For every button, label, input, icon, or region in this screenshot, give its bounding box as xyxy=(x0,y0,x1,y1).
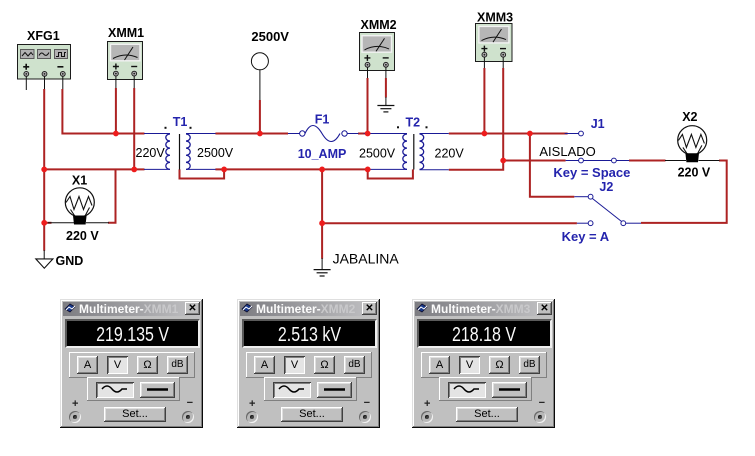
ground JABALINA stem xyxy=(321,258,323,270)
ground stem XMM2 xyxy=(385,97,387,105)
svg-text:220V: 220V xyxy=(435,147,465,161)
wire probe to bus xyxy=(259,100,261,134)
switch J2 xyxy=(574,194,641,225)
svg-text:Key = A: Key = A xyxy=(562,229,610,244)
multimeter icon XMM3 body xyxy=(476,24,513,62)
wire J1 pole to lamp X2 xyxy=(629,160,666,162)
XMM3 terminal + xyxy=(482,52,487,57)
XMM3 pin stub + xyxy=(483,57,485,68)
XMM3 pin stub - xyxy=(502,57,504,68)
svg-text:J1: J1 xyxy=(591,117,605,131)
svg-text:220V: 220V xyxy=(136,146,166,160)
junction secondary bottom node xyxy=(500,158,506,164)
ground symbol JABALINA xyxy=(314,270,331,276)
wire to J1 lower contact xyxy=(503,160,565,162)
wire bottom rail to J2 open contact xyxy=(322,222,577,224)
svg-text:F1: F1 xyxy=(315,112,330,126)
wire T2 center tap U xyxy=(368,169,413,178)
junction XMM3+ node xyxy=(482,131,488,137)
XMM2 pin stub + xyxy=(367,67,369,78)
XFG1 pin stub common xyxy=(44,76,46,89)
svg-text:2500V: 2500V xyxy=(359,147,396,161)
fuse F1 xyxy=(288,126,359,142)
junction T2 tap node xyxy=(365,167,371,173)
wire bottom bus left xyxy=(44,168,144,170)
multimeter window XMM1 xyxy=(60,299,203,428)
XFG1 terminal minus xyxy=(60,72,65,77)
ground symbol XMM2 xyxy=(377,106,394,112)
XMM2 pin stub - xyxy=(385,67,387,78)
lamp X2 xyxy=(665,126,720,163)
svg-text:Key = Space: Key = Space xyxy=(553,165,630,180)
XMM1 terminal - xyxy=(132,71,137,76)
XMM1 pin stub + xyxy=(115,76,117,88)
XFG1 pin stub minus xyxy=(62,76,64,89)
junction JABALINA node xyxy=(319,167,325,173)
XFG1 pin stub + xyxy=(25,76,27,90)
svg-text:XMM2: XMM2 xyxy=(361,18,397,32)
lamp X1 xyxy=(48,188,109,225)
probe stem wire xyxy=(259,70,261,101)
wire XMM3 + down xyxy=(483,68,485,134)
junction J2 feed node xyxy=(527,131,533,137)
svg-text:X1: X1 xyxy=(72,173,87,187)
wire XMM2 - down xyxy=(385,78,387,98)
wire XFG1 minus down and right to T1 xyxy=(62,89,144,134)
svg-text:J2: J2 xyxy=(599,180,613,194)
switch J1 xyxy=(565,131,630,163)
XMM3 terminal - xyxy=(501,52,506,57)
wire T1 center tap U xyxy=(180,169,225,178)
transformer T1 xyxy=(144,127,216,170)
junction bottom rail node xyxy=(319,220,325,226)
svg-text:10_AMP: 10_AMP xyxy=(298,147,347,161)
multimeter window XMM3 xyxy=(412,299,555,428)
multimeter icon XMM2 body xyxy=(360,33,395,71)
XMM1 pin stub - xyxy=(133,76,135,88)
junction XMM2+ node xyxy=(365,131,371,137)
svg-text:T2: T2 xyxy=(406,115,421,129)
XMM1 terminal + xyxy=(114,71,119,76)
svg-text:JABALINA: JABALINA xyxy=(333,251,400,267)
svg-text:2500V: 2500V xyxy=(197,146,234,160)
wire bottom bus T1 to T2 xyxy=(215,168,367,170)
junction XMM1- node xyxy=(131,167,137,173)
multimeter icon XMM1 body xyxy=(108,42,143,80)
junction probe node xyxy=(257,131,263,137)
wire XMM1 - down xyxy=(133,88,135,169)
wire T2 secondary top to J1 xyxy=(449,133,568,135)
junction T1 tap node xyxy=(221,167,227,173)
wire JABALINA vertical xyxy=(321,169,323,258)
probe 2500V circle xyxy=(251,53,268,70)
svg-text:T1: T1 xyxy=(173,115,188,129)
wire XFG1 common down xyxy=(43,89,45,251)
junction X1 lamp node xyxy=(41,220,47,226)
wire XMM1 + down xyxy=(115,88,117,134)
transformer T2 xyxy=(364,126,449,169)
wire XMM2 + down xyxy=(367,78,369,134)
svg-text:220 V: 220 V xyxy=(66,229,99,243)
XMM2 terminal + xyxy=(365,62,370,67)
wire X1 right vertical xyxy=(108,169,116,222)
wire fuse to T2 xyxy=(358,133,368,135)
wire top bus T1 to fuse xyxy=(215,133,288,135)
wire XMM3 - down xyxy=(502,68,504,161)
svg-text:XFG1: XFG1 xyxy=(27,29,60,43)
GND stem xyxy=(43,250,45,259)
wire T2 secondary bottom jog up xyxy=(449,161,503,170)
wire X2 return loop xyxy=(641,161,727,223)
svg-text:220 V: 220 V xyxy=(678,166,711,180)
XFG1 terminal common xyxy=(42,72,47,77)
XFG1 terminal + xyxy=(24,72,29,77)
multimeter window XMM2 xyxy=(237,299,380,428)
svg-text:XMM1: XMM1 xyxy=(108,26,144,40)
function generator XFG1 body xyxy=(18,45,71,80)
XMM2 terminal - xyxy=(384,62,389,67)
junction bottom bus left xyxy=(41,167,47,173)
svg-text:X2: X2 xyxy=(682,110,697,124)
junction top bus XMM1+ xyxy=(113,131,119,137)
wire bus to J2 upper contact xyxy=(530,134,574,197)
svg-text:AISLADO: AISLADO xyxy=(539,144,595,159)
svg-text:2500V: 2500V xyxy=(251,29,289,44)
svg-text:XMM3: XMM3 xyxy=(477,11,513,25)
svg-text:GND: GND xyxy=(56,254,84,268)
ground GND triangle xyxy=(36,259,53,268)
wire X1 left segment xyxy=(44,222,51,224)
